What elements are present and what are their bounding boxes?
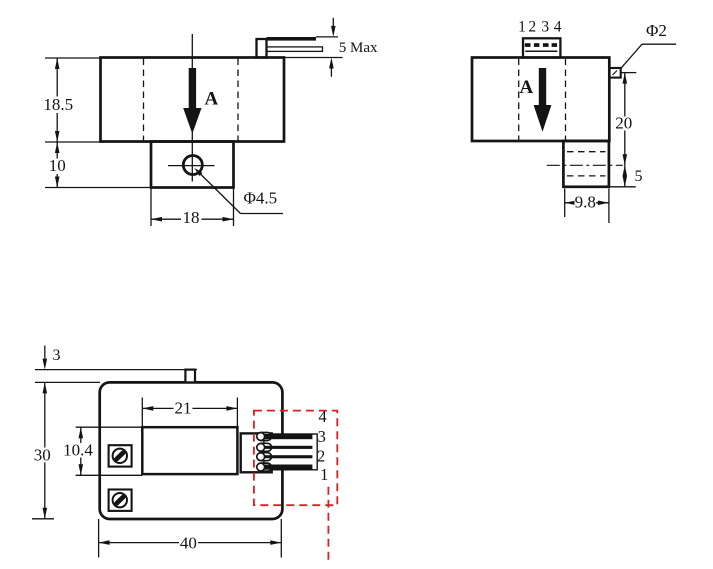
svg-text:4: 4 (554, 19, 562, 36)
svg-text:18.5: 18.5 (43, 95, 73, 114)
svg-text:1: 1 (320, 465, 328, 484)
svg-text:3: 3 (541, 19, 549, 36)
svg-text:5 Max: 5 Max (339, 40, 378, 56)
svg-text:2: 2 (317, 447, 325, 466)
svg-text:20: 20 (615, 113, 632, 132)
svg-text:10.4: 10.4 (63, 440, 93, 459)
svg-text:40: 40 (180, 533, 197, 552)
svg-text:1: 1 (518, 19, 526, 36)
svg-text:A: A (520, 77, 534, 98)
svg-text:Φ4.5: Φ4.5 (244, 189, 278, 208)
svg-text:Φ2: Φ2 (646, 21, 667, 40)
svg-text:3: 3 (53, 347, 61, 364)
svg-text:9.8: 9.8 (575, 192, 596, 211)
svg-text:A: A (205, 89, 219, 110)
svg-text:18: 18 (183, 208, 200, 227)
svg-text:21: 21 (175, 398, 192, 417)
svg-text:3: 3 (318, 427, 326, 446)
svg-text:10: 10 (49, 156, 66, 175)
svg-text:4: 4 (318, 407, 326, 426)
svg-text:5: 5 (635, 168, 643, 185)
svg-text:2: 2 (528, 19, 536, 36)
svg-text:30: 30 (34, 445, 51, 464)
